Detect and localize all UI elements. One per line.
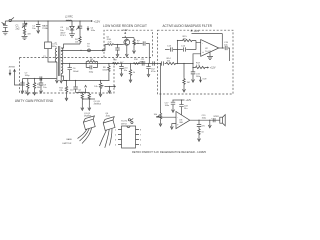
signal arrow to AF — [109, 86, 115, 88]
node (D1 branch) — [71, 20, 72, 21]
resistor R11 — [59, 81, 67, 97]
wire wiper tail — [105, 87, 110, 89]
svg-text:5: 5 — [140, 145, 142, 147]
ground (C17) — [172, 108, 175, 113]
wire input jog — [104, 45, 108, 51]
svg-text:POLY: POLY — [60, 35, 66, 37]
label Q2 BC548 — [78, 89, 85, 94]
svg-text:10u: 10u — [43, 87, 46, 89]
node (C6 branch) — [69, 63, 70, 64]
ground (Q1 emitter) — [125, 52, 128, 57]
wire antenna entry — [15, 75, 23, 85]
svg-text:OUT: OUT — [202, 79, 207, 81]
wire output to top rail — [221, 34, 223, 49]
ground (zobel) — [198, 137, 201, 142]
svg-text:1M: 1M — [90, 59, 93, 61]
capacitor C17 — [165, 100, 176, 108]
svg-text:UNITY GAIN FRONT END: UNITY GAIN FRONT END — [15, 99, 54, 103]
bias rail — [76, 92, 90, 94]
antenna E1 — [2, 22, 5, 24]
svg-text:+12V: +12V — [194, 30, 200, 33]
capacitor C16 — [191, 72, 202, 78]
svg-text:100u: 100u — [202, 117, 207, 119]
svg-text:386: 386 — [179, 122, 183, 124]
svg-text:100n: 100n — [91, 30, 95, 32]
label C19 100u — [202, 115, 207, 120]
wire node A vertical — [177, 41, 179, 64]
resistor R14 — [165, 58, 193, 65]
wire op-amp output — [219, 47, 225, 49]
svg-text:10u: 10u — [184, 108, 188, 110]
svg-text:100n: 100n — [165, 105, 170, 107]
wire top rail — [5, 20, 90, 22]
ground (R12b) — [88, 106, 91, 111]
svg-text:ANTENNA: ANTENNA — [9, 65, 15, 68]
resistor R5 — [108, 42, 121, 46]
ground (secondary) — [60, 74, 63, 83]
inductor L2 on rail — [65, 16, 73, 21]
ground (D1) — [69, 34, 75, 37]
capacitor C15 — [224, 42, 230, 61]
capacitor C14b — [181, 45, 196, 51]
dashed box UNITY GAIN FRONT END — [20, 57, 153, 59]
svg-text:1: 1 — [115, 130, 117, 132]
svg-text:C14: C14 — [181, 45, 186, 47]
connector J1 — [9, 17, 14, 21]
node (top rail left) — [177, 40, 178, 41]
variable capacitor C5 — [76, 21, 82, 36]
capacitor C (base bypass) — [115, 45, 119, 53]
node (R4 branch) — [79, 20, 80, 21]
svg-text:10k: 10k — [37, 87, 41, 89]
svg-text:10n: 10n — [32, 28, 36, 30]
svg-text:+: + — [202, 50, 204, 54]
svg-text:470n: 470n — [141, 61, 146, 63]
svg-text:+12V: +12V — [122, 29, 128, 32]
resistor R16 — [183, 64, 190, 88]
svg-text:3: 3 — [115, 140, 117, 142]
resistor R15 — [178, 36, 197, 42]
wire collector rail — [122, 37, 134, 39]
wire input row — [159, 63, 162, 65]
svg-text:8: 8 — [140, 130, 142, 132]
wire to non-inverting input — [193, 54, 201, 64]
ground (primary) — [55, 62, 58, 83]
node (C2 branch) — [24, 20, 25, 21]
wire to inverting input — [196, 42, 201, 49]
capacitor C7 on lower rail — [25, 72, 42, 80]
svg-text:DIP-8: DIP-8 — [121, 123, 127, 125]
svg-text:2n2: 2n2 — [16, 27, 21, 30]
wire audio feed vertical — [160, 64, 162, 114]
resistor R12a — [81, 93, 83, 106]
svg-text:10k: 10k — [75, 41, 78, 43]
capacitor C (regen output) — [134, 41, 149, 63]
resistor R10 on audio rail — [134, 59, 144, 64]
capacitor C12 — [146, 64, 156, 74]
node (C13 junction) — [177, 49, 178, 50]
svg-text:10n: 10n — [124, 70, 128, 72]
node (C2b branch) — [38, 20, 39, 21]
wire bias vertical — [192, 64, 194, 72]
ground (base bypass) — [116, 52, 119, 57]
resistor R2 — [25, 79, 29, 93]
svg-text:+12V: +12V — [210, 67, 216, 70]
svg-text:4.7k: 4.7k — [196, 65, 201, 67]
wire emitter rail — [82, 98, 95, 100]
TO-92 package 2 body — [103, 117, 115, 131]
label Q2 Q3 2N3904 — [94, 101, 102, 106]
svg-text:1k: 1k — [133, 72, 136, 74]
resistor R7 — [133, 38, 141, 49]
svg-text:J310: J310 — [105, 115, 110, 117]
svg-text:10: 10 — [201, 132, 204, 134]
ground (R3) — [33, 90, 36, 95]
ground (op-amp) — [207, 52, 213, 60]
label C1 2n2 — [16, 24, 21, 30]
svg-text:SPKR: SPKR — [213, 116, 219, 118]
capacitor C6 — [68, 64, 80, 81]
ground (speaker return) — [208, 120, 211, 128]
svg-text:100p: 100p — [89, 71, 94, 73]
svg-text:2.2k: 2.2k — [108, 42, 113, 44]
bias network R17 — [193, 62, 216, 69]
antenna entry arrows — [9, 70, 16, 76]
svg-text:D1: D1 — [66, 28, 70, 30]
transformer T1 secondary winding — [61, 48, 63, 74]
main schematic groups inserted below — [2, 16, 101, 62]
svg-text:47k: 47k — [59, 90, 63, 92]
label MAIN TUNE — [42, 25, 48, 31]
wire R15 to input node — [195, 41, 197, 43]
trimpot R4 — [75, 36, 81, 44]
capacitor C10 — [119, 64, 128, 73]
ground (C2b) — [37, 29, 40, 34]
ground (R16) — [183, 87, 186, 92]
resistor R9 on audio rail — [113, 60, 125, 65]
svg-text:10u: 10u — [70, 90, 73, 92]
svg-text:TL072: TL072 — [121, 121, 128, 123]
svg-text:1M: 1M — [187, 82, 190, 84]
svg-text:BASE: BASE — [67, 138, 73, 141]
wire secondary to lower rail — [61, 76, 66, 81]
svg-text:10k: 10k — [154, 114, 158, 116]
wire feedback top rail — [192, 33, 223, 35]
svg-text:100p: 100p — [25, 75, 31, 77]
capacitor C18 — [179, 100, 188, 115]
TO-92 package 2 leads — [100, 129, 113, 148]
node (bias junction) — [192, 63, 193, 64]
capacitor C1 (antenna coupling) — [3, 21, 7, 31]
node (R8 branch) — [121, 63, 122, 64]
wire main tap to audio rail — [61, 62, 160, 64]
resistor R8 — [102, 64, 110, 81]
transformer T1 primary winding — [55, 48, 57, 62]
node (RC pair left) — [86, 63, 87, 64]
node (R2 branch) — [22, 81, 23, 82]
node (R10b branch) — [130, 63, 131, 64]
svg-text:-: - — [202, 41, 203, 45]
node (tail) — [109, 86, 110, 87]
svg-text:470n: 470n — [151, 71, 156, 73]
node (bias) — [192, 67, 193, 68]
ground (R18) — [159, 122, 162, 127]
ground (R13) — [99, 92, 102, 97]
svg-text:2N3904: 2N3904 — [94, 103, 102, 105]
svg-text:ACTIVE AUDIO BANDPASS FILTER: ACTIVE AUDIO BANDPASS FILTER — [163, 24, 213, 28]
resistor R19 zobel — [198, 128, 205, 137]
svg-text:1M: 1M — [27, 33, 30, 35]
svg-text:C13: C13 — [167, 45, 172, 47]
wire primary left tap — [56, 61, 58, 63]
svg-text:R10: R10 — [134, 59, 139, 61]
wire pot wiper to amp input — [157, 115, 176, 118]
capacitor C2b — [20, 82, 24, 94]
svg-text:TL071: TL071 — [205, 51, 212, 53]
svg-text:LOW NOISE REGEN CIRCUIT: LOW NOISE REGEN CIRCUIT — [103, 24, 147, 28]
label TO-92 package 2 — [105, 113, 110, 118]
resistor R1 — [23, 28, 30, 35]
node (R16 top) — [183, 63, 184, 64]
ground (R10b) — [129, 78, 132, 83]
node (output tap) — [133, 43, 134, 44]
svg-text:EMITTER: EMITTER — [63, 143, 72, 145]
svg-text:MAIN: MAIN — [42, 25, 48, 28]
ground (C8) — [40, 89, 43, 94]
node (audio feed) — [160, 63, 161, 64]
tuning capacitor VC1 box — [43, 21, 57, 62]
TO-92 package 1 body — [83, 116, 95, 130]
svg-text:L2 RFC: L2 RFC — [65, 16, 73, 18]
svg-text:RETRO PARROT S.W. REGENERATIVE: RETRO PARROT S.W. REGENERATIVE RECEIVER … — [132, 150, 206, 154]
+12V feed — [122, 29, 128, 37]
node (R3 branch) — [34, 78, 35, 79]
transistor Q1 — [121, 38, 130, 53]
label Q1 J310 — [106, 36, 111, 41]
wire non-inverting input ground — [170, 124, 176, 130]
DIP-8 IC body — [122, 126, 136, 148]
node (C8b branch) — [75, 80, 76, 81]
regen pot R13 — [94, 81, 103, 93]
capacitor C13 on audio rail — [153, 61, 155, 65]
ground (R12a) — [81, 106, 84, 111]
signal out arrow — [200, 77, 208, 82]
node (jack junction) — [10, 20, 11, 21]
capacitor C8 — [39, 79, 47, 89]
node (C18 tap) — [181, 99, 182, 100]
wire tap to regen box — [61, 50, 104, 52]
node (C8 branch) — [40, 78, 41, 79]
ground (R7) — [133, 49, 136, 54]
capacitor C11 on audio rail — [141, 59, 146, 66]
node (zobel tap) — [198, 120, 199, 121]
svg-text:7: 7 — [140, 135, 142, 137]
label DIP U2 — [121, 121, 128, 126]
+12V rail arrow — [90, 19, 100, 23]
wire front-end input rail — [23, 78, 57, 80]
label TO-92 package 1 — [84, 113, 92, 118]
svg-text:+12V: +12V — [93, 19, 100, 23]
signal annotation arrow — [87, 26, 95, 32]
DIP-8 pins left — [115, 130, 122, 147]
diode D1 — [66, 21, 74, 34]
svg-text:10: 10 — [87, 46, 90, 48]
dashed box ACTIVE AUDIO BANDPASS FILTER — [158, 30, 234, 94]
ground (R11) — [65, 96, 68, 101]
op-amp U3 LM386 — [176, 112, 190, 129]
svg-text:10k: 10k — [94, 86, 98, 88]
node (R11 branch) — [66, 80, 67, 81]
resistor R10b — [129, 64, 136, 78]
node (gnd tap) — [209, 120, 210, 121]
svg-text:100nF: 100nF — [73, 71, 80, 73]
node (pot top) — [100, 80, 101, 81]
node (tap junction) — [80, 50, 81, 51]
node (Q1 base) — [117, 44, 118, 45]
ground (R1) — [22, 35, 28, 39]
ground (wiper) — [108, 89, 111, 94]
node (output) — [222, 47, 223, 48]
wire amp output — [190, 119, 220, 121]
ground (R2) — [26, 90, 29, 95]
svg-text:2: 2 — [115, 135, 117, 137]
wire tickler tap to R4 — [61, 44, 80, 48]
svg-text:T1: T1 — [55, 43, 58, 45]
variable capacitor C2 — [22, 21, 27, 28]
transformer T1 core — [55, 43, 60, 76]
test point TP1 — [87, 44, 90, 52]
node (filter node A) — [177, 63, 178, 64]
connector J2 phones — [128, 118, 133, 123]
ground (C12) — [147, 72, 150, 77]
svg-text:4: 4 — [115, 145, 117, 147]
svg-text:1M: 1M — [183, 38, 186, 40]
node (C12 branch) — [148, 63, 149, 64]
resistor R12b — [88, 93, 90, 106]
dashed box LOW NOISE REGEN CIRCUIT — [104, 30, 153, 57]
ground (C16) — [192, 78, 195, 83]
svg-text:TUNE: TUNE — [42, 28, 48, 30]
capacitor C20 zobel — [197, 120, 206, 128]
op-amp U2 — [201, 40, 219, 57]
ground (C10) — [120, 72, 123, 77]
resistor R3 — [33, 79, 41, 91]
capacitor C2b — [32, 21, 40, 30]
svg-text:+12V: +12V — [186, 99, 192, 102]
DIP-8 pins right — [136, 130, 143, 147]
ground (antenna) — [2, 32, 8, 35]
resistor R6 / capacitor C10 parallel pair — [86, 59, 97, 73]
node (R8 branch) — [108, 63, 109, 64]
+12V feed (filter) — [191, 29, 200, 33]
svg-text:10n: 10n — [224, 45, 228, 47]
svg-text:R9: R9 — [114, 60, 118, 62]
TO-92 package 1 leads — [78, 128, 92, 144]
svg-text:6: 6 — [140, 140, 142, 142]
svg-text:-: - — [177, 116, 178, 119]
wire +12V rail to amp — [173, 99, 192, 102]
svg-text:+: + — [211, 118, 213, 120]
speaker LS1 — [220, 115, 225, 126]
label C4 10n 400V POLY — [60, 27, 66, 37]
volume pot R18 — [154, 112, 162, 121]
svg-text:47n: 47n — [201, 126, 205, 128]
wire lower rail right — [64, 80, 110, 82]
capacitor C13b input — [162, 61, 164, 65]
capacitor C8b coupling — [70, 81, 78, 93]
capacitor C13 (to inverting input) — [165, 45, 183, 51]
capacitor C19 output — [211, 118, 215, 122]
node (tuning branch) — [47, 20, 48, 21]
svg-text:100k: 100k — [102, 70, 107, 72]
+12V feed (2nd stage) — [85, 85, 87, 92]
